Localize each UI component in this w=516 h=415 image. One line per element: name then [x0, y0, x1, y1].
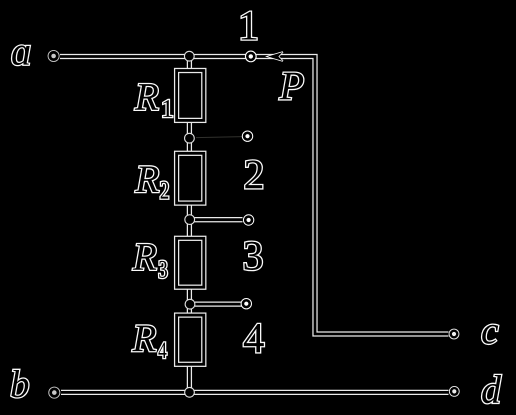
wire: terminal a to node A (horizontal, y=56.5) [60, 54, 189, 59]
wire: resistor R1 bottom lead to resistor R2 top lead (through node B) [187, 120, 192, 153]
node junction dot top (a-1 wire) [184, 51, 195, 62]
wiper arrowhead pointing left at tap 1 [268, 52, 283, 61]
label R1 subscript 1 [163, 100, 172, 117]
wire: node A to tap contact 1 (horizontal) [189, 54, 250, 59]
wire: faint thin tap wire from node B to tap contact 2 [196, 137, 243, 138]
label R2 [135, 166, 158, 192]
tap contact circle 1 [245, 51, 257, 63]
wire: resistor R3 bottom lead to resistor R4 top lead (through node D) [187, 287, 192, 315]
node junction dot between R1 and R2 [184, 133, 195, 144]
resistor R1 [177, 71, 204, 121]
wire: terminal b to terminal d (bottom horizontal, y=392.4) [61, 390, 449, 395]
label R4 [132, 326, 155, 352]
terminal a open circle [48, 50, 60, 62]
resistor R4 [177, 315, 204, 364]
label R3 [133, 244, 156, 270]
label R3 subscript 3 [159, 261, 167, 278]
tap contact circle 2 [242, 131, 253, 142]
label 1 (tap 1) [242, 12, 257, 40]
label b [11, 370, 28, 397]
label d [482, 375, 501, 403]
label a [12, 46, 29, 65]
wire: node D to tap contact 4 (horizontal) [195, 301, 242, 306]
node junction dot between R3 and R4 [185, 299, 196, 310]
label 4 (tap 4) [244, 324, 264, 352]
terminal b open circle [48, 387, 60, 399]
label P (wiper) [279, 73, 303, 100]
resistor R3 [177, 238, 204, 287]
label R2 subscript 2 [161, 182, 169, 199]
label c [482, 325, 498, 344]
label R1 [135, 84, 158, 110]
node junction dot bottom (b-d wire) [184, 387, 195, 398]
label R4 subscript 4 [158, 343, 166, 358]
tap contact circle 4 [241, 298, 252, 309]
wire: wiper P lead from tap contact 1 right, down the right side, to terminal c [256, 57, 449, 335]
wire: node C to tap contact 3 (horizontal) [194, 217, 243, 222]
node junction dot between R2 and R3 [184, 214, 195, 225]
terminal d open circle [449, 386, 460, 397]
wire: resistor R2 bottom lead to resistor R3 top lead (through node C) [187, 203, 192, 238]
label 2 (tap 2) [245, 160, 262, 188]
label 3 (tap 3) [245, 242, 262, 270]
resistor R2 [177, 153, 204, 203]
tap contact circle 3 [243, 214, 254, 225]
terminal c open circle [449, 329, 460, 340]
wire: resistor R4 bottom lead down to bottom wire (node E) [187, 364, 192, 392]
wire: node A down to resistor R1 top lead [187, 57, 192, 71]
